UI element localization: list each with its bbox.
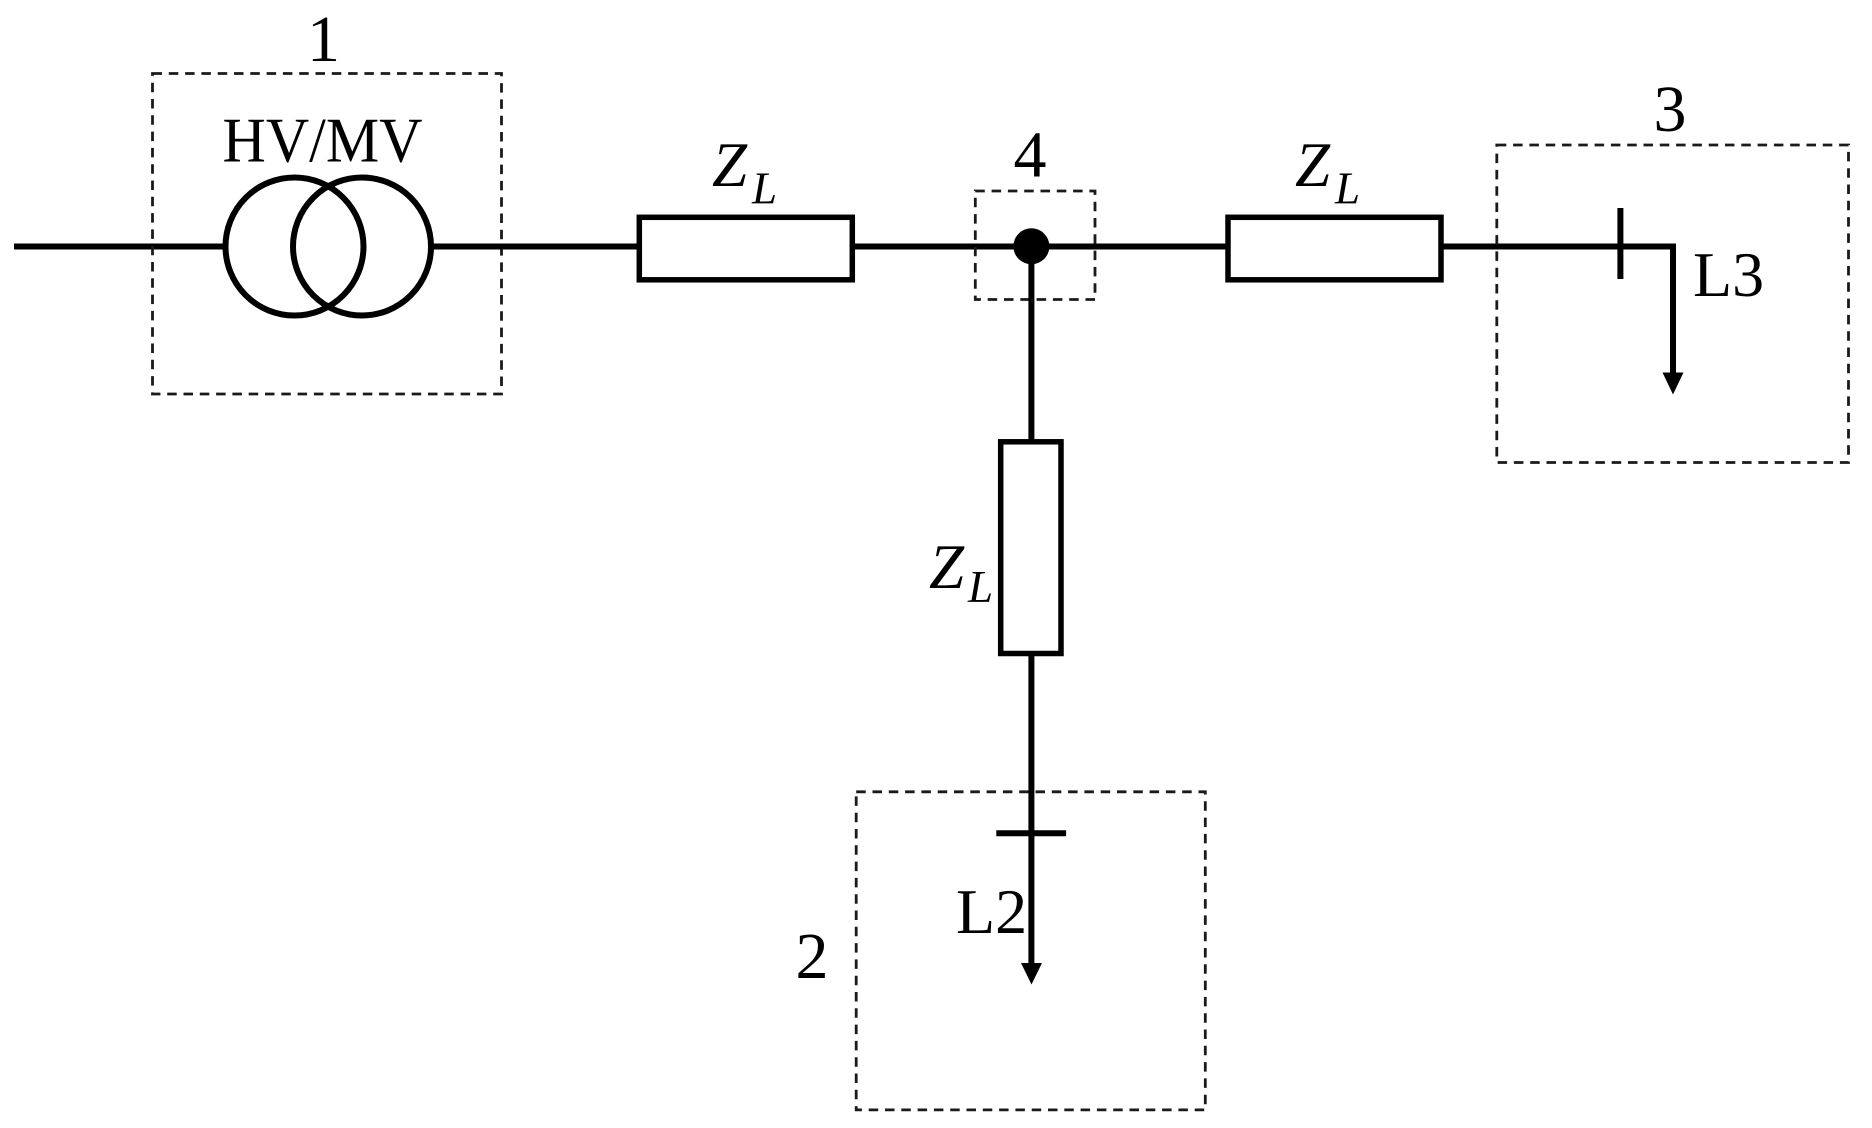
load L2 tick [996,830,1066,836]
label ZL1 [712,130,777,214]
wire: transformer to impedance ZL1 [431,244,641,250]
wire: ZL3 down to load L2 [1028,654,1034,965]
label ZL3 [929,532,993,612]
svg-text:L: L [751,164,777,214]
svg-text:L: L [1334,164,1360,214]
label L3 [1693,239,1764,310]
transformer T1 primary winding [226,178,364,316]
load box 3 dashed [1497,145,1849,463]
load L3 arrow head [1663,373,1684,395]
line impedance ZL2 [1228,217,1441,279]
label ZL2 [1295,130,1360,214]
node 4 dashed box [975,191,1095,300]
svg-text:Z: Z [929,532,965,602]
svg-text:3: 3 [1654,73,1687,146]
transformer T1 secondary winding [293,178,431,316]
load L2 arrow head [1021,963,1042,985]
svg-text:L: L [967,562,993,612]
substation dashed box 1 [153,74,502,395]
wire: node 4 down to vertical ZL3 [1028,247,1034,445]
label 3 [1654,73,1687,146]
svg-text:Z: Z [1295,130,1331,200]
svg-text:1: 1 [307,3,340,76]
load L3 tick [1617,208,1623,279]
svg-text:L3: L3 [1693,239,1764,310]
node 4 junction dot [1013,228,1049,264]
label 4 [1014,119,1047,192]
svg-text:2: 2 [796,920,829,993]
wire: ZL1 through node 4 to ZL2 [852,244,1228,250]
label 2 [796,920,829,993]
svg-text:L2: L2 [956,876,1027,947]
wire: incoming source lead [14,244,225,250]
wire: ZL2 to load L3 corner [1441,247,1673,375]
svg-text:4: 4 [1014,119,1047,192]
label 1 [307,3,340,76]
line impedance ZL1 [639,217,852,279]
label HV/MV [223,105,423,176]
line impedance ZL3 vertical [1001,442,1061,654]
svg-text:Z: Z [712,130,748,200]
load box 2 dashed [856,792,1205,1110]
label L2 [956,876,1027,947]
svg-text:HV/MV: HV/MV [223,105,423,176]
